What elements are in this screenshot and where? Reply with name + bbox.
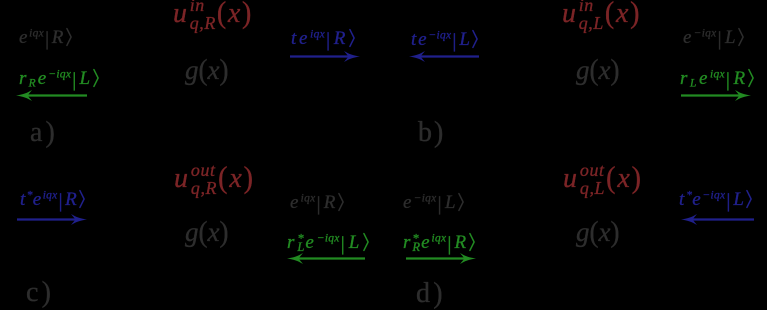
panel d : gray wave label e^{-iqx}|L>: [403, 193, 464, 214]
panel c : gray g(x): [185, 219, 228, 246]
panel c : green left arrow: [287, 253, 365, 264]
panel c : green label r*_L e^{-iqx}|L>: [287, 233, 369, 254]
panel a : gray g(x): [185, 57, 228, 84]
panel b : gray g(x): [576, 57, 619, 84]
panel b : gray incoming wave label e^{-iqx}|L>: [683, 28, 744, 49]
panel b : blue transmitted label te^{-iqx}|L>: [411, 30, 478, 51]
panel b : red title u^in_{q,L}(x): [562, 0, 641, 32]
panel c : blue label t* e^{iqx}|R>: [20, 190, 85, 211]
panel d : gray g(x): [576, 219, 619, 246]
panel a : gray incoming wave label e^{iqx}|R>: [19, 28, 72, 49]
panel d : blue label t* e^{-iqx}|L>: [679, 190, 752, 211]
panel b : blue left arrow: [409, 51, 479, 62]
panel c : letter c): [26, 279, 54, 307]
panel a : blue transmitted label te^{iqx}|R>: [291, 29, 355, 50]
panel a : letter a): [30, 119, 58, 147]
panel d : green right arrow: [406, 253, 476, 264]
panel b : letter b): [418, 119, 445, 147]
panel b : green reflected label r_L e^{iqx}|R>: [680, 69, 754, 90]
panel a : blue right arrow: [290, 51, 360, 62]
panel a : green left arrow: [16, 90, 87, 101]
panel c : red title u^out_{q,R}(x): [174, 162, 255, 197]
panel a : green reflected label r_R e^{-iqx}|L>: [19, 69, 99, 90]
panel c : gray wave label e^{iqx}|R>: [290, 193, 344, 214]
panel d : blue left arrow: [681, 214, 754, 225]
panel d : red title u^out_{q,L}(x): [563, 162, 643, 197]
panel a : red title u^in_{q,R}(x): [173, 0, 253, 32]
panel b : green right arrow: [681, 90, 751, 101]
panel d : letter d): [416, 280, 446, 308]
panel c : blue right arrow: [17, 214, 87, 225]
panel d : green label r*_R e^{iqx}|R>: [403, 233, 475, 254]
